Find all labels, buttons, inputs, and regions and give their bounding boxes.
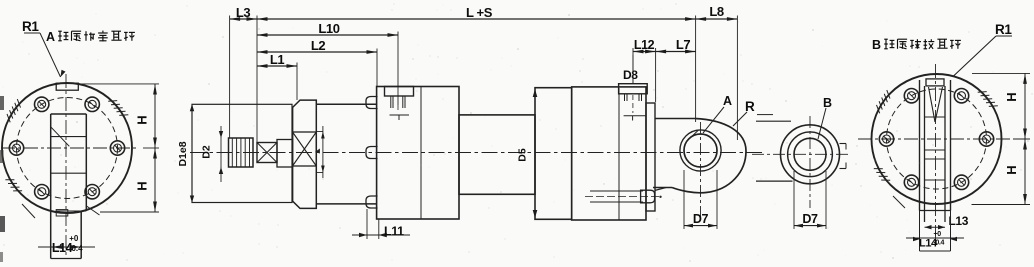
- bushing detail bore circle: [794, 138, 826, 170]
- right flange outer circle: [872, 74, 1002, 204]
- eye bearing ring: [680, 130, 721, 171]
- svg-text:D8: D8: [623, 68, 638, 82]
- left flange bolt holes: [110, 141, 124, 155]
- svg-text:+0: +0: [934, 231, 942, 238]
- left flange bolt circle: [17, 98, 118, 199]
- svg-text:D5: D5: [517, 148, 529, 162]
- eye bore: [684, 134, 717, 167]
- dimension D5 rotated: [533, 89, 538, 97]
- end plate 2: [646, 103, 655, 211]
- dimension L+S: [257, 18, 696, 20]
- right flange bolt circle: [887, 89, 987, 189]
- dimension L7: [656, 51, 696, 53]
- dimension L2: [257, 51, 377, 53]
- eye outer contour lobe: [672, 119, 746, 193]
- svg-text:R1: R1: [995, 22, 1012, 37]
- mount tab middle: [366, 147, 378, 159]
- right flange centerlines: [935, 64, 937, 246]
- dimension L3: [230, 18, 257, 20]
- left flange stray diagonal: [22, 204, 35, 218]
- svg-text:L13: L13: [949, 214, 969, 228]
- eye plate top edge: [655, 118, 695, 120]
- bushing centerlines: [809, 116, 811, 208]
- dimension L12: [633, 51, 656, 53]
- front tube section: [316, 103, 376, 105]
- svg-text:D7: D7: [802, 212, 818, 226]
- svg-text:L11: L11: [384, 225, 404, 239]
- gland block: [293, 100, 317, 208]
- dimension H left: [154, 84, 156, 212]
- svg-text:A: A: [723, 94, 732, 108]
- svg-text:L3: L3: [236, 5, 251, 20]
- dimension L8: [696, 18, 738, 20]
- dimension L10: [257, 34, 398, 36]
- head block 2: [572, 87, 646, 220]
- dimension L14 right: [919, 211, 921, 252]
- svg-text:L2: L2: [311, 38, 326, 53]
- left flange outer circle: [2, 83, 132, 213]
- head block 1: [377, 87, 459, 220]
- right flange top cap rect: [926, 79, 944, 86]
- dimension L13: [925, 226, 946, 228]
- cushion screw plug: [641, 190, 655, 203]
- svg-text:L12: L12: [634, 38, 655, 52]
- rod thread block: [229, 138, 254, 167]
- svg-text:H: H: [135, 181, 150, 190]
- port 2 drill bottom mark: [624, 115, 646, 117]
- bushing connector lines from eye: [756, 120, 791, 122]
- svg-text:H: H: [1004, 165, 1019, 174]
- bushing side bracket right: [840, 143, 847, 145]
- eye centerlines: [700, 122, 702, 218]
- svg-text:H: H: [1004, 92, 1019, 101]
- right flange lug inner band: [924, 86, 926, 222]
- dimension L1: [257, 65, 297, 67]
- port 1 drill bottom mark: [390, 114, 410, 116]
- right flange lug housing band: [919, 80, 921, 211]
- left flange top key rect: [56, 83, 78, 90]
- rod envelope box: [192, 104, 292, 202]
- dimension D7 eye: [683, 170, 685, 229]
- svg-text:D2: D2: [201, 145, 213, 159]
- svg-text:B: B: [872, 38, 881, 52]
- cushion screw passage: [590, 190, 643, 192]
- svg-text:D1e8: D1e8: [177, 141, 189, 166]
- tube rear collar: [535, 88, 572, 220]
- left flange lug band: [51, 113, 87, 115]
- bushing detail outer circle: [781, 125, 840, 184]
- right flange rim hatch marks: [877, 105, 880, 113]
- gland cross box: [293, 132, 317, 166]
- right flange cone vee: [929, 87, 936, 122]
- port boss D8: [619, 84, 648, 94]
- mount tab top: [366, 97, 378, 109]
- main axis centerline: [190, 152, 762, 154]
- svg-text:L1: L1: [270, 52, 285, 67]
- gland rod dia dimension: [322, 126, 324, 178]
- right flange lug horizontal lines: [925, 116, 946, 118]
- left flange rim hatch marks: [7, 114, 10, 122]
- left flange centerlines: [65, 74, 67, 258]
- svg-text:-0.4: -0.4: [69, 244, 83, 253]
- svg-text:H: H: [135, 115, 150, 124]
- dimension D7 bushing: [793, 171, 795, 229]
- svg-text:A: A: [46, 30, 55, 44]
- svg-text:L10: L10: [318, 21, 339, 36]
- svg-text:-0.4: -0.4: [934, 240, 945, 247]
- cylinder tube: [459, 115, 535, 194]
- bushing detail middle circle: [788, 132, 833, 177]
- right flange bottom step: [920, 210, 951, 212]
- svg-text:+0: +0: [69, 234, 79, 243]
- dimension L11: [366, 209, 368, 239]
- dimension L14 left: [38, 246, 95, 248]
- left flange lug lower extension: [80, 211, 82, 259]
- right flange bolt holes: [979, 132, 993, 146]
- svg-text:R1: R1: [22, 19, 39, 34]
- port boss 1: [385, 87, 414, 97]
- mount tab bottom: [366, 196, 378, 208]
- eye plate bottom edge: [653, 187, 672, 189]
- rod wrench flats box: [257, 143, 277, 163]
- svg-text:L8: L8: [709, 4, 724, 19]
- svg-text:L +S: L +S: [466, 5, 493, 20]
- scan edge artifacts: [0, 96, 4, 110]
- svg-text:D7: D7: [693, 212, 709, 226]
- svg-text:L7: L7: [676, 37, 691, 52]
- dimension H right: [1024, 73, 1026, 204]
- dimension D2: [220, 126, 222, 182]
- svg-text:B: B: [823, 96, 832, 110]
- rod shoulder stub: [277, 140, 293, 168]
